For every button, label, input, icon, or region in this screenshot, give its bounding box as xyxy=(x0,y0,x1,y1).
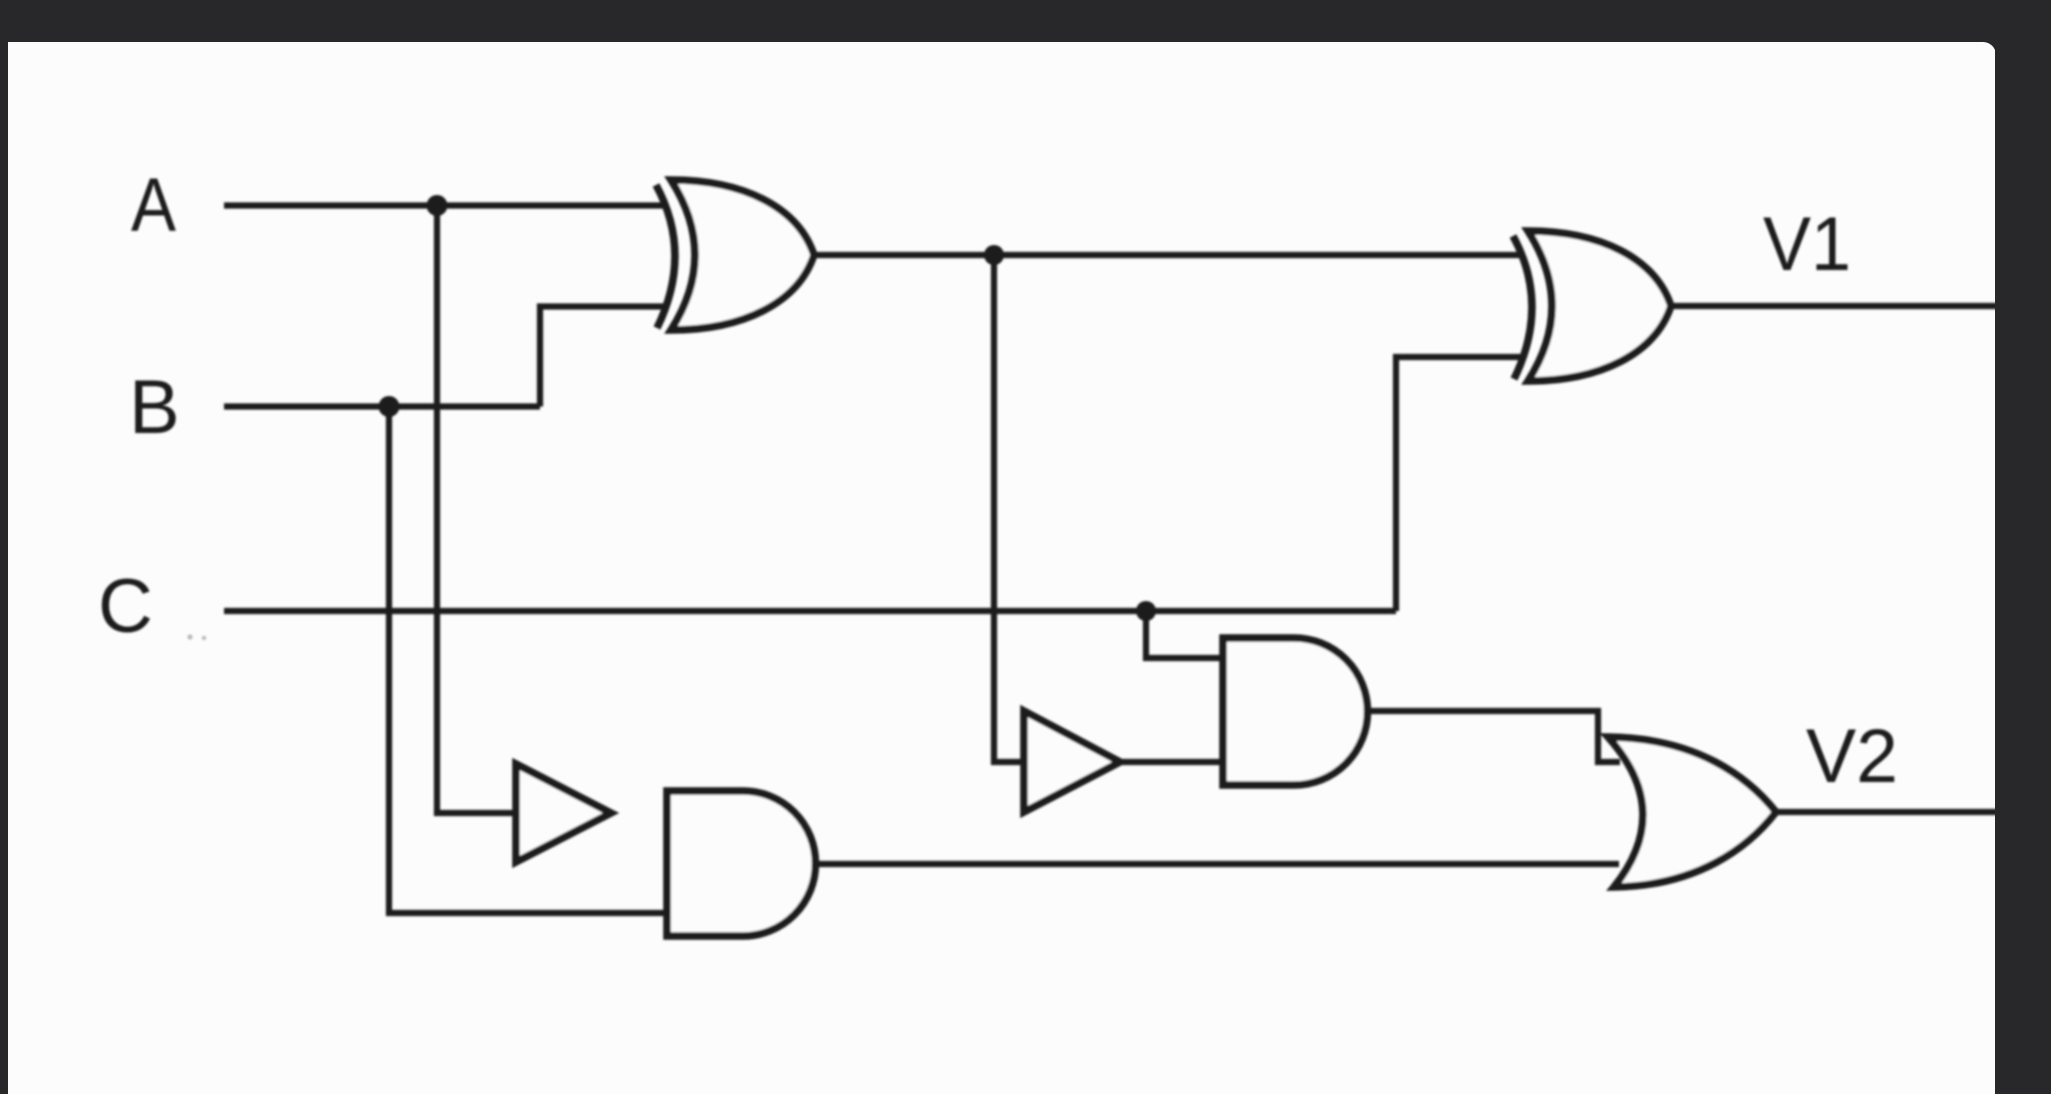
speck artifacts near C xyxy=(187,634,206,640)
right dark border xyxy=(1995,42,2051,1094)
wire A branch down to buffer U3 xyxy=(437,206,521,814)
wire output V1 xyxy=(1671,303,1998,309)
wire input B xyxy=(224,403,540,409)
svg-text:V2: V2 xyxy=(1806,714,1898,799)
wire input C xyxy=(224,608,1396,614)
and gate U5 xyxy=(1223,638,1368,785)
xor gate U2 body xyxy=(1528,231,1671,381)
wire input A xyxy=(224,202,665,208)
or gate U7 xyxy=(1608,737,1776,887)
buffer U3 xyxy=(516,764,611,862)
junction node on A xyxy=(427,195,448,216)
rounded corner of content area top-right xyxy=(1983,42,1996,55)
svg-text:C: C xyxy=(98,564,153,649)
wire B branch down to AND U4 lower input xyxy=(389,407,672,914)
junction node on B xyxy=(379,396,400,417)
buffer U6 xyxy=(1024,711,1120,812)
svg-text:B: B xyxy=(129,365,180,450)
wire buffer U6 output to AND U5 lower input xyxy=(1120,759,1227,765)
svg-text:A: A xyxy=(131,163,176,248)
xor gate U1 body xyxy=(671,180,814,330)
left dark border xyxy=(0,42,8,1094)
wire C branch down to AND U5 upper input xyxy=(1146,611,1228,658)
wire AND U4 output to OR U7 lower input xyxy=(816,861,1619,867)
wire B step up to XOR U1 lower input xyxy=(540,307,665,407)
top dark bar xyxy=(0,0,2051,42)
svg-text:V1: V1 xyxy=(1763,202,1851,287)
and gate U4 xyxy=(667,791,816,936)
xor gate U1 input arc xyxy=(656,180,814,330)
wire node S down to buffer U6 input xyxy=(994,255,1028,762)
wire output V2 xyxy=(1776,809,1998,815)
wire XOR U1 output to XOR U2 upper input xyxy=(813,252,1522,258)
wire AND U5 output step down to OR U7 upper input xyxy=(1368,711,1620,762)
junction node S on XOR U1 output xyxy=(984,245,1004,265)
wire C up to XOR U2 lower input xyxy=(1396,357,1522,611)
xor gate U2 input arc xyxy=(1513,231,1671,381)
junction node on C xyxy=(1136,601,1156,621)
